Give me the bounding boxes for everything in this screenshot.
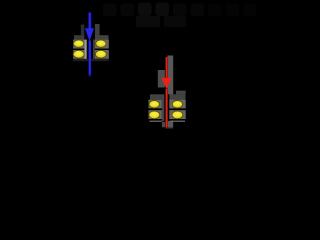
molecule M2 left strand stub below pads [162,122,165,128]
molecule M1 pad plate left row1 [73,40,84,49]
force arrow F2 red line through molecule [165,89,168,129]
molecule M1 row gap shadow left [73,49,84,51]
molecule M2 bottom shadow line left [149,119,162,121]
molecule M2 head ellipse bottom-right [172,111,183,119]
molecule M2 row gap shadow right [168,108,186,110]
molecule M1 pad plate left row2 [73,50,84,59]
molecule M1 black column behind arrowhead [84,19,95,40]
molecule M2 head ellipse top-left [149,101,159,108]
molecule M2 head ellipse bottom-left [149,111,160,119]
molecule M1 pad plate right row1 [95,40,109,49]
force arrow F1 blue line through molecule [88,41,91,78]
molecule M2 bottom light edge right [171,121,186,122]
molecule M2 hinge left dark column [162,95,165,121]
molecule M2 pad plate right row1 [168,100,186,109]
molecule M1 pad top strip left [74,35,84,39]
molecule M1 bottom strip [73,59,109,61]
molecule M1 neck collar left strand [81,25,86,37]
molecule M1 pad plate right row2 [95,50,109,59]
molecule M1 head ellipse bottom-left [73,50,84,58]
molecule M2 neck right strand [167,56,173,129]
molecule M1 head ellipse bottom-right [95,50,106,58]
molecule M1 slot black behind arrow [87,40,93,59]
molecule M1 head ellipse top-left [74,40,84,47]
molecule M2 pad plate left row1 [149,100,162,109]
bottom fade of F1 blue line [85,74,95,78]
molecule M2 bottom light edge left [150,121,162,122]
force arrow F2 red arrowhead [161,78,171,89]
force arrow F2 red shaft upper [165,57,168,78]
molecule M2 neck right strand light section [168,100,173,119]
force arrow F1 blue arrowhead [85,28,94,41]
force arrow F1 blue shaft upper [88,13,91,29]
bottom fade of M2 neck and red line [157,127,177,131]
molecule M1 row gap shadow right [95,49,109,51]
molecule M2 slot black behind arrow [164,94,169,121]
molecule M2 head ellipse top-right [172,101,182,108]
molecule M2 neck left strand [158,70,165,88]
molecule M1 neck collar right strand [95,24,100,37]
molecule M2 right shoulder [176,91,186,95]
molecule M2 pad plate left row2 [149,110,162,119]
molecule M2 pad top strip [150,94,186,99]
molecule M1 pad top strip right [95,35,109,39]
molecule M1 head ellipse top-right [96,40,106,47]
molecule M1 hinge right dark column [93,40,95,61]
molecule M1 hinge left light column [84,40,86,61]
molecule M2 bottom shadow line right [168,119,186,121]
molecule M2 row gap shadow left [149,108,162,110]
faint background toolbar remnants [103,4,117,17]
molecule M2 pad plate right row2 [168,110,186,119]
